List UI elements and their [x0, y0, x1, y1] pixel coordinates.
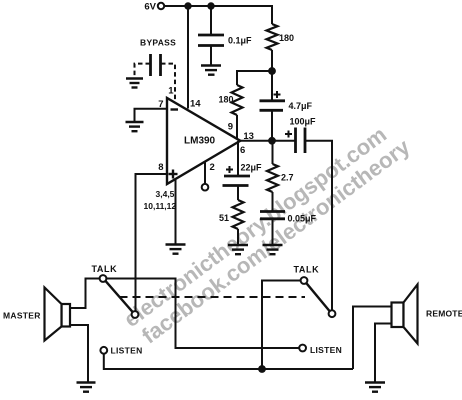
wire junction to remote talk contact: [262, 281, 301, 370]
speaker master driver: [62, 304, 71, 327]
svg-text:6V: 6V: [144, 2, 156, 13]
junction dot R1 bottom: [268, 67, 276, 75]
dashed gang line: [120, 296, 306, 298]
wire pin 7 to ground: [135, 109, 168, 122]
svg-text:14: 14: [190, 99, 201, 110]
ground C6: [263, 245, 283, 254]
wire C3 to output node: [271, 110, 273, 137]
wire R2 to pin 9: [236, 115, 238, 138]
svg-text:3,4,5: 3,4,5: [156, 189, 175, 199]
junction dot rail pin14: [184, 2, 191, 9]
svg-text:2.7: 2.7: [281, 173, 294, 183]
svg-text:9: 9: [228, 122, 233, 133]
plus sign C3: [274, 91, 281, 98]
switch S1b arm: [307, 283, 330, 311]
ground R4: [228, 245, 248, 254]
svg-text:TALK: TALK: [92, 264, 118, 274]
switch S1a talk master: contact: [100, 275, 107, 282]
switch S1a pole contact: [132, 311, 139, 318]
svg-text:LISTEN: LISTEN: [310, 345, 342, 355]
svg-text:electronictheory.blogspot.com: electronictheory.blogspot.com: [119, 122, 391, 332]
svg-text:22μF: 22μF: [241, 163, 263, 173]
wire C1 to ground: [210, 46, 212, 66]
wire C4 to remote talk: [305, 141, 332, 310]
svg-text:51: 51: [219, 213, 229, 223]
capacitor C6 0.05uF: [260, 212, 285, 219]
junction dot rail C1: [207, 2, 214, 9]
wire output node: [240, 140, 295, 142]
plus sign C5: [226, 166, 233, 173]
svg-text:10,11,12: 10,11,12: [144, 201, 177, 211]
svg-text:7: 7: [158, 99, 163, 110]
ground C1: [201, 66, 221, 75]
junction dot listen bus: [258, 365, 266, 373]
svg-text:1: 1: [168, 86, 174, 97]
capacitor C3 4.7uF: [260, 101, 286, 111]
svg-text:180: 180: [279, 33, 294, 43]
capacitor C5 22uF: [223, 176, 251, 186]
switch S1b talk remote: contact: [301, 277, 308, 284]
wire junction to R2: [237, 71, 272, 85]
ground pins 3-12: [166, 245, 186, 254]
resistor R2 180: [232, 85, 243, 115]
svg-text:BYPASS: BYPASS: [140, 38, 176, 48]
switch S1b pole contact: [329, 310, 336, 317]
junction dot output node: [268, 137, 276, 145]
resistor R4 51: [233, 200, 244, 229]
wire dashed bypass left: [135, 64, 151, 78]
wire C6 to ground: [272, 219, 274, 245]
ground remote speaker: [365, 383, 385, 392]
wire remote speaker top: [353, 307, 392, 370]
wire pin 8 feedback: [136, 174, 168, 311]
wire 2.7 branch: [272, 141, 274, 164]
capacitor C1 0.1uF: [198, 35, 224, 46]
svg-text:13: 13: [243, 131, 254, 142]
op-amp U1 LM390: [167, 98, 240, 184]
ground master speaker: [77, 383, 96, 392]
capacitor C4 100uF: [296, 128, 306, 154]
svg-text:0.1μF: 0.1μF: [228, 36, 252, 46]
plus sign C4: [285, 131, 292, 138]
wire master speaker bottom to ground: [70, 325, 88, 383]
svg-text:0.05μF: 0.05μF: [288, 213, 317, 223]
wire 0.1uF branch: [210, 6, 212, 35]
speaker remote driver: [392, 303, 404, 328]
speaker remote cone: [404, 285, 418, 344]
resistor R3 2.7: [267, 164, 278, 192]
svg-text:8: 8: [158, 162, 163, 173]
wire master speaker top to talk contact: [70, 279, 100, 309]
wire R1 to 4.7uF: [271, 50, 273, 100]
wire C5 to R4: [237, 186, 239, 201]
svg-text:4.7μF: 4.7μF: [289, 101, 313, 111]
wire talk master to remote listen: [106, 279, 299, 349]
wire pins 3,4,5,10,11,12 to ground: [175, 179, 177, 245]
speaker master cone: [45, 288, 62, 341]
resistor R1 180: [267, 24, 278, 50]
wire R4 to ground: [237, 229, 239, 245]
svg-text:MASTER: MASTER: [3, 311, 41, 321]
ground pin 7: [126, 122, 144, 131]
ground bypass: [126, 79, 143, 88]
wire 6V rail: [165, 6, 273, 24]
svg-text:2: 2: [210, 162, 215, 173]
terminal listen master: [100, 347, 107, 354]
minus sign pin 7: [171, 108, 179, 110]
wire dashed pin 1: [161, 64, 175, 101]
svg-text:LISTEN: LISTEN: [111, 346, 143, 356]
switch S1a arm: [106, 281, 133, 312]
wire pin 6 branch: [237, 141, 239, 176]
svg-text:100μF: 100μF: [290, 117, 317, 127]
svg-text:LM390: LM390: [184, 135, 216, 146]
wire R3 to C6: [272, 192, 274, 212]
capacitor C2 bypass: [151, 54, 161, 76]
terminal listen remote: [299, 345, 306, 352]
wire pin 2: [204, 162, 206, 184]
svg-text:180: 180: [218, 95, 233, 105]
terminal pin 2: [202, 184, 209, 191]
wire listen master to junction: [104, 354, 353, 369]
svg-text:REMOTE: REMOTE: [426, 309, 462, 319]
svg-text:6: 6: [240, 145, 245, 156]
plus sign pin 8: [169, 170, 178, 179]
wire pin 14: [187, 6, 189, 109]
wire remote speaker bottom to ground: [375, 324, 392, 383]
terminal 6V: [158, 3, 164, 9]
svg-text:TALK: TALK: [294, 265, 320, 275]
